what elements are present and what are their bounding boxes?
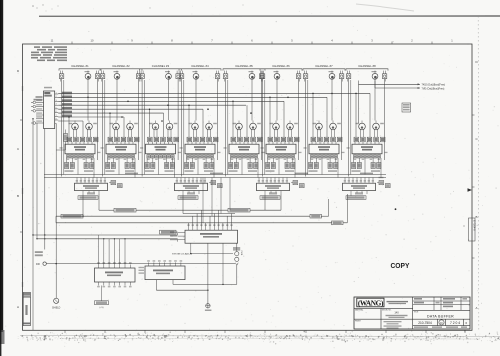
channel 1 line receiver IC U1 (65, 144, 95, 154)
fold mark arrow right frame (464, 188, 472, 226)
multiplexer IC U11 top pins (76, 178, 106, 184)
channel 2 side pin labels (101, 147, 142, 153)
channel 6 side pin labels (261, 147, 302, 153)
channel 8 side pin labels (347, 147, 388, 153)
channel 5 bracket (223, 69, 265, 71)
output net 7402 line with arrow (359, 81, 446, 124)
channel 5 output resistor group right (248, 158, 258, 172)
channel 5 input jack right (259, 71, 263, 82)
channel 1 bus tap wires (68, 116, 83, 137)
channel 8 bias resistor row (354, 137, 385, 142)
multiplexer IC U12 bottom pins (183, 191, 199, 196)
control bus pair wires (33, 233, 178, 242)
channel 5 side pin labels (224, 147, 265, 153)
channel 1 polarity transistor Q1a (85, 71, 91, 80)
U22 output wire to ground rail (156, 280, 208, 291)
channel 3 input jack right (176, 71, 180, 82)
channel 5 wire drops from jacks (226, 79, 262, 177)
channel 7 line receiver IC U7 (309, 144, 339, 154)
channel 1 label (71, 64, 89, 68)
channel 4 input transistor Q4c (206, 121, 217, 138)
svg-text:5: 5 (56, 107, 57, 109)
channel 4 polarity transistor Q4a (193, 71, 199, 80)
summing bus line lower (44, 177, 386, 179)
channel 1 wires to summing bus (78, 158, 94, 178)
channel 4 label (191, 64, 209, 68)
channel 3 side pin labels (140, 147, 181, 153)
channel 4 side pin labels (180, 147, 221, 153)
multiplexer IC U14 bottom pins (351, 191, 367, 196)
multiplexer IC U13 top pins (258, 178, 288, 184)
channel 1 output resistor group left (65, 158, 75, 172)
one-shot IC U20 (95, 268, 136, 282)
select bus label A (61, 214, 83, 218)
channel 6 IC U6 top pin stubs (269, 142, 293, 144)
channel 8 output resistor group left (352, 158, 362, 172)
channel 4 IC U4 top pin stubs (188, 142, 212, 144)
svg-text:DATA BUFFER: DATA BUFFER (427, 314, 454, 318)
U22 left pin labels (139, 267, 145, 274)
channel 6 input transistor Q6b (270, 121, 280, 138)
multiplexer IC U11 bottom pins (83, 191, 99, 196)
svg-text:CHANNEL #4: CHANNEL #4 (191, 64, 209, 68)
channel 6 line receiver IC U6 (266, 144, 296, 154)
channel 4 wires to summing bus (198, 158, 214, 178)
svg-text:CHANNEL #7: CHANNEL #7 (315, 64, 333, 68)
multiplexer IC U12 top pins (176, 178, 206, 184)
channel 8 input transistor Q8c (373, 121, 384, 138)
channel 3 output resistor group left (145, 158, 155, 172)
channel 3 IC U3 bottom pin row (147, 155, 174, 160)
channel 1 input jack left (59, 71, 63, 82)
border zone ticks bottom and numbers (43, 330, 465, 338)
channel 7 bus tap wires (312, 93, 327, 138)
multiplexer IC U14 (343, 183, 376, 190)
channel 3 wires to summing bus (159, 158, 175, 178)
channel 3 bus tap wires (149, 108, 164, 137)
border zone letters left (17, 69, 23, 309)
fan-in wires to encoder IC (189, 210, 232, 226)
connector J1 label text (34, 87, 53, 101)
channel 7 IC U7 top pin stubs (312, 142, 336, 144)
earth ground symbol center (205, 304, 212, 312)
vertical net label C401 (240, 251, 242, 257)
encoder IC U21 (185, 230, 238, 243)
svg-text:B: B (17, 194, 19, 198)
channel 5 polarity transistor Q5a (249, 71, 255, 80)
select bus label D (310, 214, 322, 218)
left rail wire inner (32, 123, 45, 250)
channel 2 polarity transistor Q2a (114, 71, 120, 80)
net label near channel 8 (402, 103, 411, 112)
material and model cells (355, 309, 419, 318)
wires from summing bus to select bus (203, 178, 230, 223)
connector J1 block (44, 91, 55, 129)
channel 7 polarity transistor Q7a (329, 71, 335, 80)
revision history strip (23, 293, 30, 326)
channel 8 wire drops from jacks (349, 79, 385, 177)
channel 5 line receiver IC U5 (229, 144, 259, 154)
channel 3 bracket (140, 69, 182, 71)
bus junction dots (87, 93, 333, 122)
WANG logo (357, 298, 384, 307)
decoder IC U22 (145, 266, 185, 280)
title text DATA BUFFER (427, 314, 454, 318)
multiplexer IC U13 bottom pins (265, 191, 281, 196)
channel 1 IC U1 bottom pin row (66, 155, 93, 160)
channel 1 bias resistor row (67, 137, 98, 142)
pull-up resistor R21a (109, 181, 116, 185)
channel 1 input jack right (95, 71, 99, 82)
channel 1 input transistor Q1b (69, 121, 79, 138)
svg-text:3: 3 (56, 100, 57, 102)
encoder IC U21 left input labels (170, 231, 185, 240)
channel 7 output resistor group right (328, 158, 338, 172)
title block revision cells text (414, 298, 467, 307)
svg-text:7: 7 (56, 115, 57, 117)
channel 5 output resistor group left (229, 158, 239, 172)
select bus label B (114, 208, 136, 212)
channel 2 output resistor group right (125, 158, 135, 172)
channel 2 wire drops from jacks (103, 79, 139, 177)
channel 4 wire drops from jacks (182, 79, 218, 177)
svg-text:MATERIAL: MATERIAL (355, 309, 363, 312)
channel 2 input transistor Q2b (110, 121, 120, 138)
channel 2 wires to summing bus (119, 158, 135, 178)
svg-text:7 2 0 4: 7 2 0 4 (450, 321, 460, 325)
channel 4 IC U4 bottom pin row (186, 155, 213, 160)
one-shot IC U20 bottom pins (97, 282, 131, 287)
channel 6 input jack right (296, 71, 300, 82)
data bus lines (58, 93, 370, 121)
svg-text:7402 (Out)(Bus)(Free): 7402 (Out)(Bus)(Free) (422, 83, 446, 86)
svg-text:210-7504: 210-7504 (418, 321, 432, 325)
svg-text:STROBE (Or A)(B+T): STROBE (Or A)(B+T) (172, 252, 192, 255)
channel 4 input jack right (215, 71, 219, 82)
svg-text:(WANG): (WANG) (358, 299, 384, 308)
channel 5 input transistor Q5b (233, 121, 243, 138)
channel 8 line receiver IC U8 (352, 144, 382, 154)
multiplexer IC U13 part number label (260, 192, 280, 199)
svg-text:140: 140 (394, 310, 399, 314)
paper right edge (477, 16, 480, 330)
multiplexer IC U12 (175, 183, 208, 190)
notes text block (31, 46, 67, 61)
svg-text:7VE (Out)(Bus)(Free): 7VE (Out)(Bus)(Free) (422, 87, 445, 90)
multiplexer IC U14 part number label (346, 192, 366, 199)
channel 8 input jack right (382, 71, 386, 82)
border zone letters right (472, 60, 479, 310)
channel 7 side pin labels (304, 147, 345, 153)
channel 1 side pin labels (60, 147, 101, 153)
channel 6 polarity transistor Q6a (274, 71, 280, 80)
svg-text:1: 1 (56, 93, 57, 95)
channel 1 input transistor Q1c (86, 121, 97, 138)
strobe signal label (172, 243, 233, 255)
channel 6 input transistor Q6c (287, 121, 298, 138)
svg-text:CHANNEL #8: CHANNEL #8 (358, 64, 376, 68)
pull-up resistor R24b (386, 184, 391, 188)
channel 5 label (235, 64, 253, 68)
channel 3 polarity transistor Q3a (165, 71, 171, 80)
pull-up resistor R22a (209, 181, 216, 185)
channel 5 bias resistor row (231, 137, 262, 142)
top left corner specks (32, 4, 243, 11)
channel 6 IC U6 bottom pin row (267, 155, 294, 160)
drawing number cells (418, 319, 467, 325)
finish cell and scale cell (355, 320, 402, 328)
channel 6 bias resistor row (268, 137, 299, 142)
multiplexer IC U11 part number label (78, 192, 98, 199)
one-shot IC U20 top pins (97, 262, 131, 268)
channel 3 input transistor Q3b (149, 121, 159, 138)
channel 4 output resistor group right (204, 158, 214, 172)
channel 3 input jack left (140, 71, 144, 82)
svg-text:B: B (476, 215, 478, 219)
channel 6 bus tap wires (269, 97, 284, 138)
channel 7 bias resistor row (311, 137, 342, 142)
pull-up resistor R24a (377, 181, 384, 185)
title block inner dividers (354, 297, 470, 329)
COPY stamp (391, 261, 410, 269)
scanner edge band left (0, 0, 5, 356)
U20 timing capacitor label (95, 286, 109, 310)
channel 2 bias resistor row (108, 137, 139, 142)
pull-up resistor R22b (218, 184, 223, 188)
svg-text:2: 2 (56, 96, 57, 98)
channel 8 wires to summing bus (365, 158, 381, 178)
channel 8 bus tap wires (355, 93, 370, 138)
channel 5 IC U5 top pin stubs (232, 142, 256, 144)
output net 7VE line with arrow (375, 81, 445, 91)
channel 7 input jack left (303, 71, 307, 82)
channel 7 output resistor group left (309, 158, 319, 172)
channel 6 wires to summing bus (279, 158, 295, 178)
channel 7 wires to summing bus (322, 158, 338, 178)
channel 7 IC U7 bottom pin row (310, 155, 337, 160)
U21 main output vertical to ground (207, 243, 209, 303)
extra grain upper drawing area (43, 48, 454, 182)
svg-text:CHANNEL #3: CHANNEL #3 (152, 64, 170, 68)
channel 5 bus tap wires (232, 101, 247, 138)
channel 1 IC U1 top pin stubs (68, 142, 92, 144)
connector pin DR (36, 262, 235, 266)
wires from mux outputs to select bus (82, 196, 183, 217)
crystal component chain (173, 243, 240, 284)
title block bottom strip (414, 326, 467, 328)
channel 8 output resistor group right (371, 158, 381, 172)
channel 2 line receiver IC U2 (106, 144, 136, 154)
channel 2 bracket (100, 69, 142, 71)
channel 6 input jack left (260, 71, 264, 82)
pull-up resistor on shield rail (56, 130, 67, 151)
channel 8 IC U8 bottom pin row (353, 155, 380, 160)
channel 3 output resistor group right (165, 158, 175, 172)
channel 8 input transistor Q8b (356, 121, 366, 138)
channel 2 input transistor Q2c (127, 121, 138, 138)
channel 7 bracket (303, 69, 345, 71)
shield terminal (52, 298, 61, 309)
paper bottom edge speckle band (18, 330, 500, 345)
svg-text:COPY: COPY (391, 261, 410, 269)
vertical drawing number box E-7204 (469, 218, 477, 241)
U21 output wire to shared node (222, 243, 223, 285)
pull-up resistor R23a (291, 181, 298, 185)
multiplexer IC U14 top pins (344, 178, 374, 184)
connector J1 right-side pin stubs (55, 93, 59, 121)
channel 6 bracket (260, 69, 302, 71)
channel 8 IC U8 top pin stubs (355, 142, 379, 144)
channel 4 output resistor group left (185, 158, 195, 172)
+5V supply note (35, 251, 43, 256)
svg-text:A: A (17, 305, 19, 309)
drawing frame border (23, 44, 473, 330)
channel 1 output resistor group right (84, 158, 94, 172)
border zone ticks top (51, 38, 454, 44)
svg-text:CHANNEL #5: CHANNEL #5 (235, 64, 253, 68)
channel 5 input transistor Q5c (250, 121, 261, 138)
channel 8 polarity transistor Q8a (372, 71, 378, 80)
svg-text:A: A (476, 306, 478, 310)
channel 3 wire drops from jacks (142, 79, 178, 177)
channel 6 wire drops from jacks (263, 79, 299, 177)
left rail wire outer (32, 118, 33, 330)
summing bus line upper (44, 174, 386, 176)
extra speckles lower half (33, 185, 478, 332)
channel 4 bus tap wires (188, 104, 203, 137)
channel 4 input transistor Q4b (189, 121, 199, 138)
channel 7 input transistor Q7b (313, 121, 323, 138)
select bus label C (228, 208, 250, 212)
decoder IC U22 top pins (147, 260, 182, 266)
channel 8 input jack left (346, 71, 350, 82)
svg-text:C401: C401 (240, 251, 242, 257)
channel 1 wire drops from jacks (62, 79, 98, 177)
pull-up resistor R23b (300, 184, 305, 188)
channel 4 line receiver IC U4 (185, 144, 215, 154)
channel 3 bias resistor row (148, 137, 179, 142)
svg-text:MODEL NO.: MODEL NO. (382, 310, 392, 312)
multiplexer IC U13 (257, 183, 290, 190)
svg-text:E-7204-9: E-7204-9 (473, 220, 477, 231)
channel 2 bus tap wires (109, 112, 124, 137)
channel 2 IC U2 bottom pin row (107, 155, 134, 160)
channel 4 bracket (179, 69, 221, 71)
channel 3 IC U3 top pin stubs (149, 142, 173, 144)
svg-text:CHANNEL #2: CHANNEL #2 (112, 64, 130, 68)
shield drop wire (55, 123, 57, 298)
select bus wires (56, 194, 396, 223)
Wang Laboratories address text (387, 301, 409, 304)
channel 2 output resistor group left (106, 158, 116, 172)
paper top edge line (39, 15, 500, 17)
svg-text:4: 4 (56, 104, 57, 106)
svg-text:(+5): (+5) (100, 307, 104, 309)
channel 5 wires to summing bus (242, 158, 258, 178)
channel 2 input jack left (100, 71, 104, 82)
channel 8 bracket (346, 69, 388, 71)
svg-text:FINISH: FINISH (355, 320, 361, 322)
encoder IC U21 top pins (187, 224, 232, 230)
channel 2 IC U2 top pin stubs (109, 142, 133, 144)
channel 8 label (358, 64, 376, 68)
svg-text:CHANNEL #1: CHANNEL #1 (71, 64, 89, 68)
channel 3 input transistor Q3c (166, 121, 177, 138)
svg-text:8: 8 (56, 119, 57, 121)
connector J1 left-side pins with leads (31, 100, 44, 124)
channel 4 bias resistor row (187, 137, 218, 142)
top right streak (356, 4, 414, 11)
channel 6 label (272, 64, 290, 68)
multiplexer IC U11 (75, 183, 108, 190)
channel 6 output resistor group left (266, 158, 276, 172)
multiplexer IC U12 part number label (178, 192, 198, 199)
channel 2 label (112, 64, 130, 68)
channel 7 label (315, 64, 333, 68)
channel 7 input jack right (339, 71, 343, 82)
pull-up resistor R21b (118, 184, 123, 188)
channel 6 output resistor group right (285, 158, 295, 172)
channel 4 input jack left (179, 71, 183, 82)
select bus label E (332, 221, 344, 225)
svg-text:SHIELD: SHIELD (52, 308, 61, 310)
encoder input net label (160, 230, 177, 234)
channel 1 bracket (59, 69, 101, 71)
channel 7 input transistor Q7c (330, 121, 341, 138)
title block outline (354, 297, 470, 329)
svg-text:6: 6 (56, 111, 57, 113)
channel 5 IC U5 bottom pin row (230, 155, 257, 160)
channel 3 label (152, 64, 170, 68)
bus signal name labels (62, 92, 72, 117)
channel 7 wire drops from jacks (306, 79, 342, 177)
channel 2 input jack right (136, 71, 140, 82)
channel 3 line receiver IC U3 (146, 144, 176, 154)
channel 5 input jack left (223, 71, 227, 82)
summing bus labels (125, 173, 384, 179)
svg-text:CHANNEL #6: CHANNEL #6 (272, 64, 290, 68)
svg-text:DR: DR (36, 262, 40, 266)
wires from control bus to U20 (99, 235, 126, 265)
